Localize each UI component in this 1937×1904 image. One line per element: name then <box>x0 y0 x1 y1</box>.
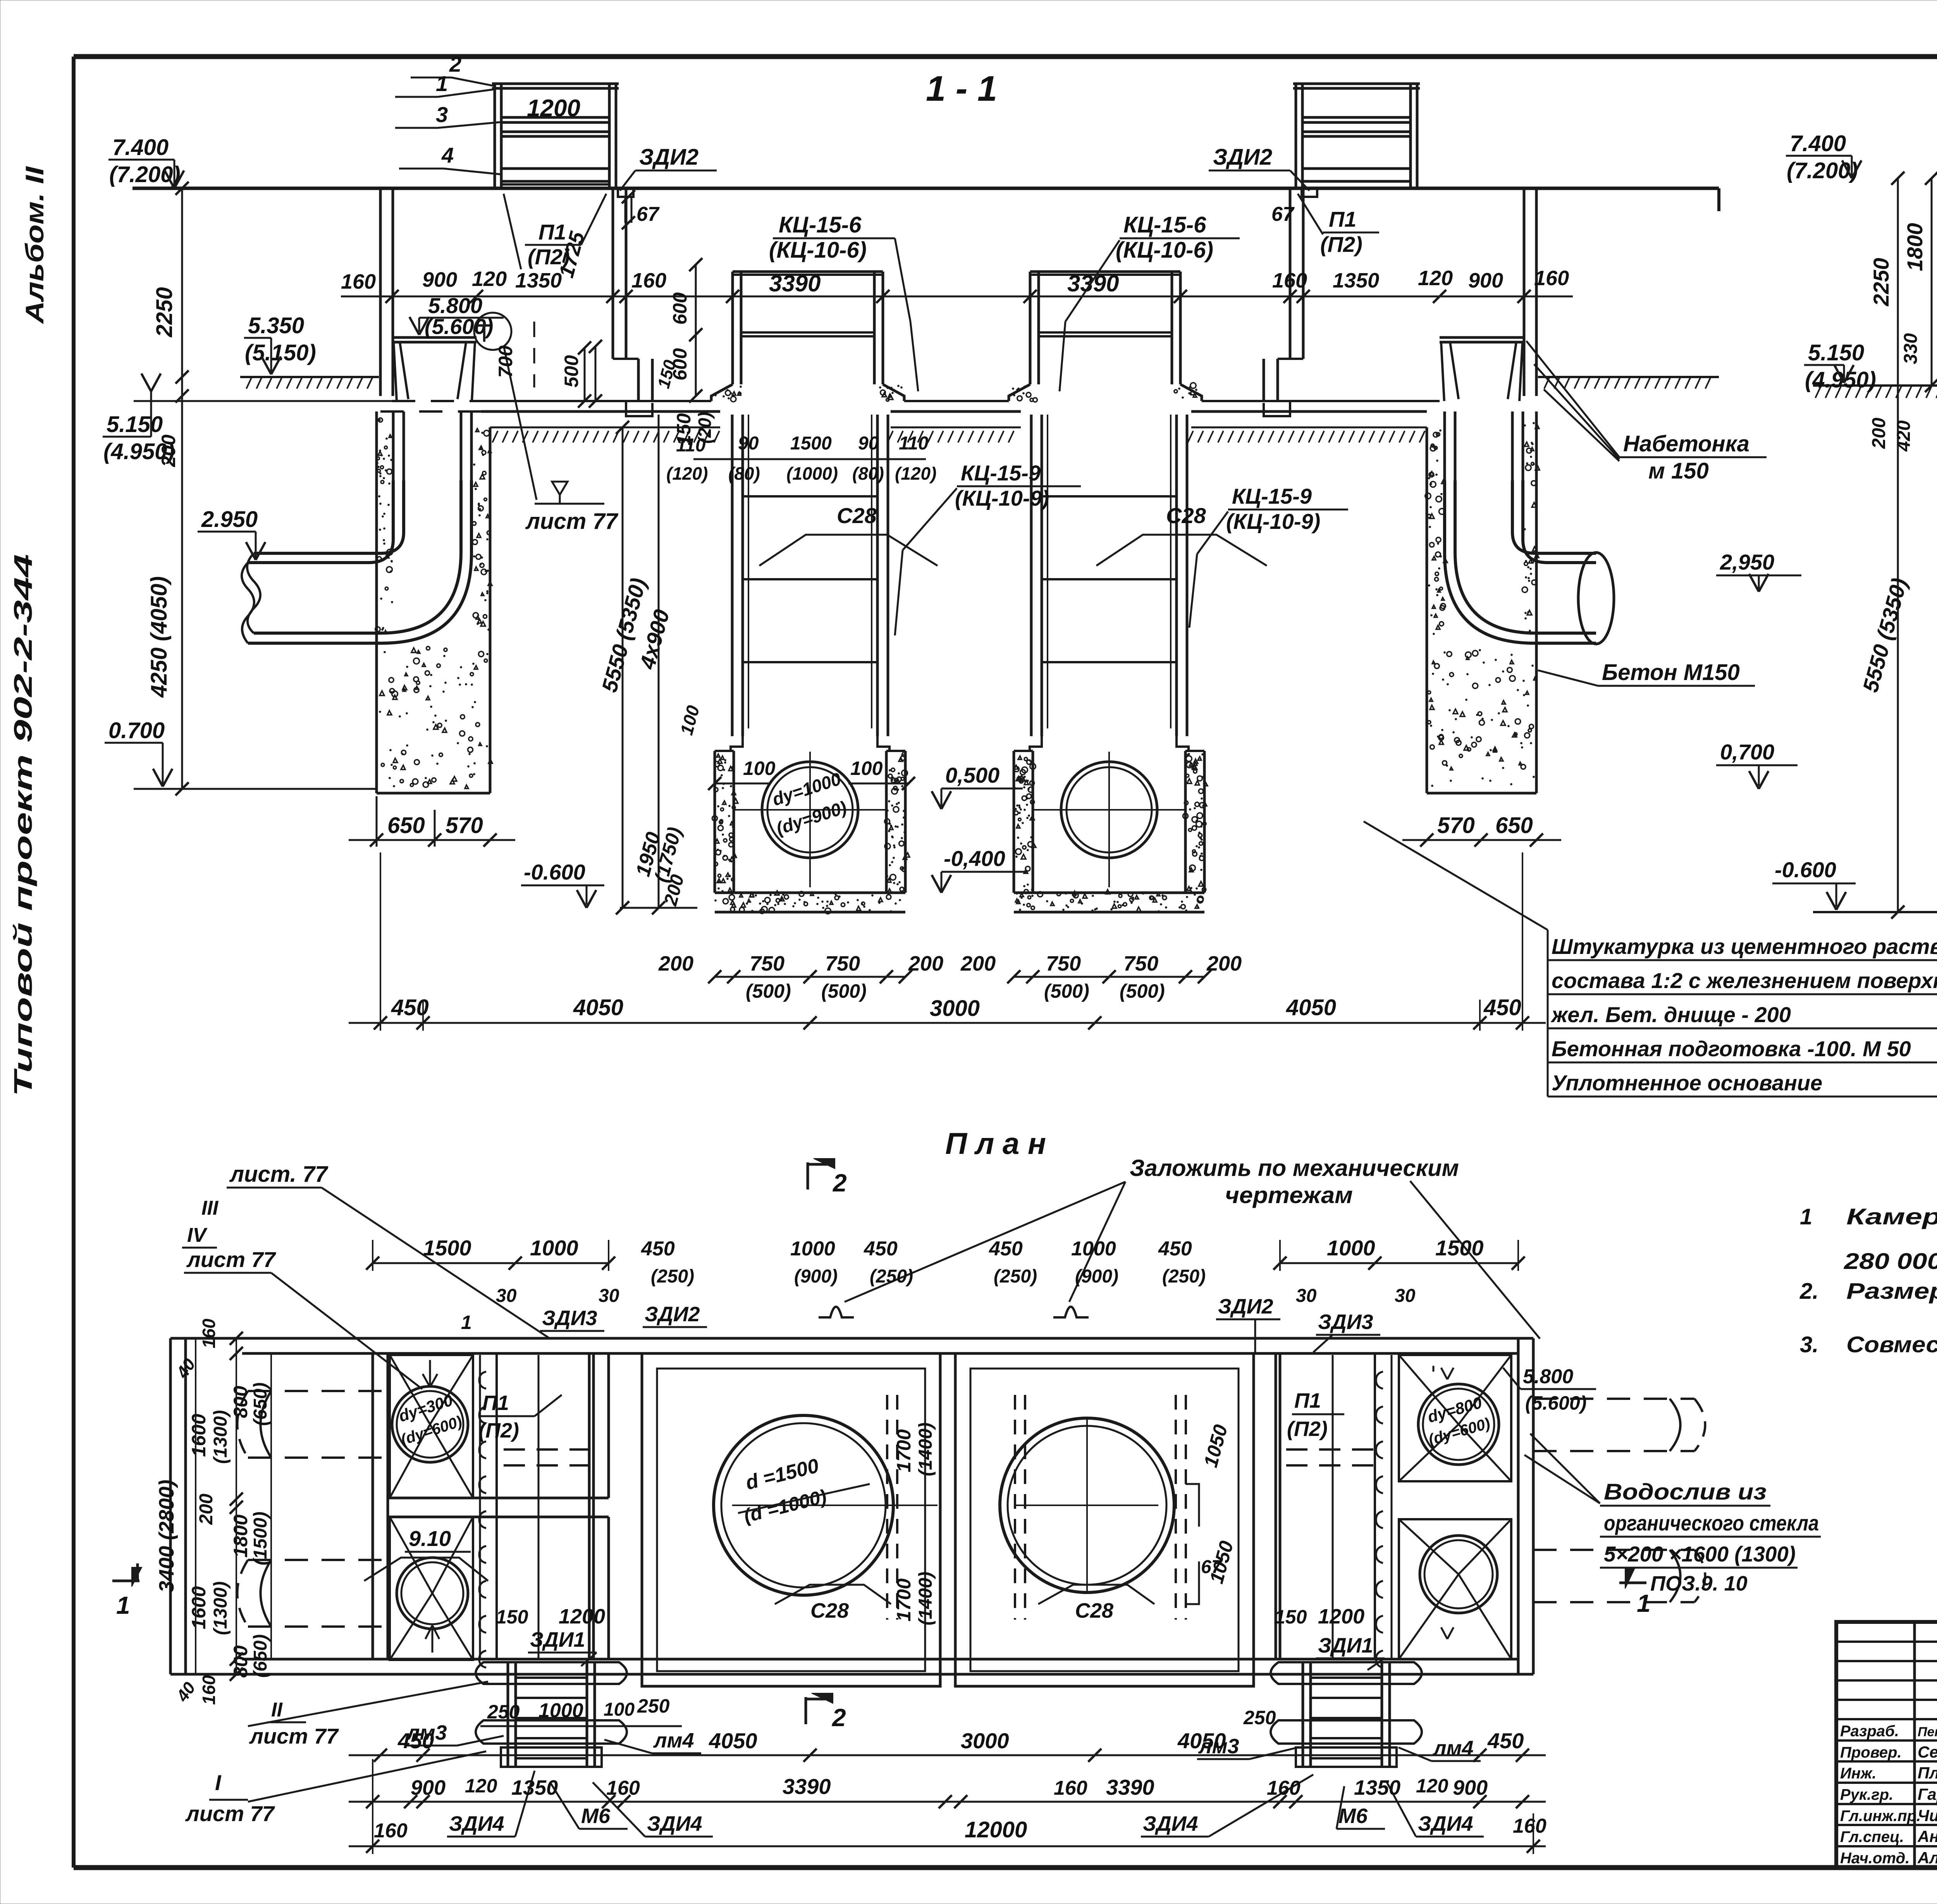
svg-text:5.800: 5.800 <box>1523 1365 1573 1388</box>
svg-text:Штукатурка из цементного раств: Штукатурка из цементного раствора <box>1552 934 1937 959</box>
left vertical dimension line with 2250 and 4250 <box>146 182 189 795</box>
svg-text:1350: 1350 <box>1333 269 1379 292</box>
svg-text:90: 90 <box>738 433 759 454</box>
svg-text:(650): (650) <box>250 1382 271 1426</box>
detail leader to list 77 left <box>504 346 619 534</box>
svg-text:Разраб.: Разраб. <box>1840 1723 1899 1740</box>
svg-text:С28: С28 <box>837 503 877 528</box>
svg-text:ЗДИ4: ЗДИ4 <box>647 1812 702 1835</box>
label P1 P2 plan left <box>478 1391 562 1442</box>
label Nabetonka m150 with leaders <box>1526 341 1767 484</box>
svg-text:4050: 4050 <box>573 995 623 1020</box>
svg-text:Совместно с данным см. п.: Совместно с данным см. п. КЖ-77 <box>1846 1332 1937 1357</box>
svg-text:Уплотненное основание: Уплотненное основание <box>1552 1071 1822 1095</box>
svg-text:лм4: лм4 <box>1432 1737 1474 1760</box>
plan right opening square lower <box>1399 1519 1511 1659</box>
dim 570 650 under right pier <box>1402 813 1561 847</box>
svg-text:Размеры и обозначения в ско: Размеры и обозначения в скобках для каме… <box>1846 1279 1937 1304</box>
svg-text:120: 120 <box>465 1775 497 1797</box>
svg-text:250: 250 <box>1243 1707 1276 1728</box>
label P1 P2 right <box>1298 194 1379 257</box>
svg-text:160: 160 <box>606 1777 640 1799</box>
svg-text:(250): (250) <box>994 1266 1037 1287</box>
svg-text:(1000): (1000) <box>786 463 838 484</box>
plan right chamber room P1 <box>1276 1353 1375 1659</box>
svg-text:1350: 1350 <box>1354 1776 1400 1799</box>
svg-text:ЗДИ2: ЗДИ2 <box>1218 1295 1273 1318</box>
plan right anchor strip <box>1375 1355 1392 1668</box>
svg-text:1350: 1350 <box>511 1776 558 1799</box>
dim 650 570 under left pier <box>349 796 846 847</box>
external ground line right with hatching <box>1538 376 1719 378</box>
plan top dims right row 1000 1500 <box>1273 1236 1525 1306</box>
svg-text:160: 160 <box>341 270 376 293</box>
plan stair left labels <box>405 1721 713 1837</box>
svg-text:160: 160 <box>1054 1777 1087 1799</box>
plan label ZDI1 right <box>1201 1557 1385 1670</box>
svg-text:КЦ-15-6: КЦ-15-6 <box>1123 212 1206 238</box>
svg-text:1500: 1500 <box>1435 1236 1484 1260</box>
plan big circle right <box>1000 1418 1174 1592</box>
lower shaft left below floor with pit and pipe dy1000 <box>731 415 734 736</box>
svg-text:750: 750 <box>750 952 784 975</box>
svg-text:(1500): (1500) <box>250 1511 271 1565</box>
svg-text:450: 450 <box>1158 1238 1192 1260</box>
svg-text:150: 150 <box>1275 1606 1307 1628</box>
plan dashed ladder strips C28 <box>887 1395 1186 1620</box>
svg-text:2.: 2. <box>1799 1279 1818 1304</box>
svg-text:12000: 12000 <box>965 1817 1027 1842</box>
guard rail left of section 1-1 <box>492 84 619 188</box>
svg-text:650: 650 <box>1495 813 1533 838</box>
svg-text:160: 160 <box>1534 267 1569 290</box>
svg-text:30: 30 <box>496 1286 517 1306</box>
signature labels <box>1840 1723 1937 1867</box>
svg-text:чертежам: чертежам <box>1225 1182 1353 1208</box>
svg-text:М6: М6 <box>1338 1804 1368 1828</box>
svg-text:2: 2 <box>449 52 461 76</box>
svg-text:1200: 1200 <box>1318 1605 1364 1628</box>
svg-text:лист 77: лист 77 <box>525 509 619 534</box>
lower shaft right below floor with pit and pipe <box>1030 415 1033 736</box>
plan labels ZDI2 ZDI3 right <box>1216 1295 1380 1352</box>
right elbow pipe down and to the right <box>1445 480 1614 644</box>
svg-text:100: 100 <box>850 757 883 779</box>
plan label ZDI1 left <box>496 1605 605 1666</box>
concrete encasement left pier <box>377 411 490 793</box>
anchor detail under deck with dim 67 <box>618 188 660 229</box>
svg-text:160: 160 <box>374 1820 408 1842</box>
plan stair assembly right <box>1271 1662 1422 1684</box>
svg-text:570: 570 <box>1437 813 1475 838</box>
svg-text:ЗДИ2: ЗДИ2 <box>639 145 698 170</box>
svg-text:жел. Бет. днище - 200: жел. Бет. днище - 200 <box>1550 1002 1791 1027</box>
plan left chamber block walls <box>373 1353 609 1659</box>
plan labels ZDI3 ZDI2 left <box>540 1303 707 1331</box>
svg-text:160: 160 <box>199 1319 219 1348</box>
svg-text:450: 450 <box>989 1238 1023 1260</box>
svg-text:С28: С28 <box>1075 1599 1113 1622</box>
svg-text:Альбом. II: Альбом. II <box>20 166 49 324</box>
svg-text:-0,400: -0,400 <box>944 846 1005 871</box>
thin level line 0.700 left <box>134 788 378 790</box>
left outer wall of chamber <box>379 188 382 396</box>
svg-text:2: 2 <box>833 1169 847 1197</box>
plan C28 labels with chevrons <box>775 1585 1154 1622</box>
svg-text:1600: 1600 <box>188 1586 210 1629</box>
svg-text:90: 90 <box>858 433 879 454</box>
svg-text:200: 200 <box>1869 418 1889 449</box>
svg-text:420: 420 <box>1894 420 1914 452</box>
svg-text:1500: 1500 <box>423 1236 471 1260</box>
plan right circle lower <box>1420 1536 1497 1613</box>
plan left pipe circle lower <box>397 1558 468 1629</box>
label KC-15-9 right with leader <box>1189 484 1348 628</box>
P1 chamber left wall right side mirror <box>1264 188 1303 401</box>
svg-text:лм4: лм4 <box>653 1729 694 1752</box>
svg-text:1200: 1200 <box>559 1605 605 1628</box>
level 5.800 5.600 plan right <box>1503 1365 1596 1414</box>
svg-text:лист 77: лист 77 <box>186 1247 277 1272</box>
plan dashed incoming pipes left upper <box>237 1391 390 1458</box>
plan right circle dy800 upper <box>1418 1384 1499 1465</box>
svg-text:30: 30 <box>599 1286 619 1306</box>
svg-text:200: 200 <box>908 952 943 975</box>
leader texts II list 77 and I list 77 bottom left <box>185 1682 488 1826</box>
svg-text:3000: 3000 <box>930 996 980 1021</box>
title block signature grid <box>1836 1622 1937 1868</box>
svg-text:2: 2 <box>832 1704 846 1732</box>
svg-text:1 - 1: 1 - 1 <box>926 69 997 108</box>
svg-text:(500): (500) <box>746 980 791 1002</box>
anchor label ZDI2 left <box>620 145 717 191</box>
svg-text:1000: 1000 <box>1327 1236 1375 1260</box>
svg-text:(80): (80) <box>852 463 884 484</box>
svg-text:1: 1 <box>116 1591 130 1619</box>
svg-text:900: 900 <box>422 268 457 291</box>
svg-text:(КЦ-10-6): (КЦ-10-6) <box>769 238 867 263</box>
svg-text:П1: П1 <box>1329 207 1356 231</box>
dim 100 texts at pit ledge <box>708 757 915 790</box>
svg-text:7.400: 7.400 <box>1790 131 1846 156</box>
leader texts list 77 top left of plan <box>182 1162 550 1389</box>
ground hatch left and right of 2-2 box <box>1813 386 1937 398</box>
svg-text:160: 160 <box>1513 1815 1547 1837</box>
svg-text:110: 110 <box>899 433 929 454</box>
plan bottom dim chain row1 450 4050 3000 4050 450 <box>349 1728 1546 1762</box>
svg-text:4: 4 <box>441 143 454 167</box>
svg-text:II: II <box>271 1699 283 1721</box>
svg-text:160: 160 <box>1267 1777 1301 1799</box>
svg-text:1: 1 <box>1800 1204 1812 1229</box>
right anchor detail with dim 67 <box>1271 188 1317 226</box>
svg-text:(5.600): (5.600) <box>1525 1392 1586 1414</box>
svg-text:7.400: 7.400 <box>112 135 169 160</box>
svg-text:450: 450 <box>1483 995 1521 1020</box>
svg-text:250: 250 <box>637 1695 670 1717</box>
plan stair right labels <box>1141 1707 1484 1837</box>
svg-text:1000: 1000 <box>530 1236 578 1260</box>
svg-text:1700: 1700 <box>893 1579 915 1622</box>
svg-text:Набетонка: Набетонка <box>1623 431 1749 456</box>
svg-text:330: 330 <box>1901 333 1921 364</box>
plan big circle left d1500 <box>714 1415 938 1595</box>
svg-text:450: 450 <box>1487 1728 1524 1753</box>
svg-text:9.10: 9.10 <box>409 1526 451 1551</box>
svg-text:0.700: 0.700 <box>108 718 165 743</box>
svg-text:500: 500 <box>561 355 582 387</box>
svg-text:750: 750 <box>1123 952 1158 975</box>
svg-text:органического стекла: органического стекла <box>1604 1511 1819 1535</box>
svg-text:-0.600: -0.600 <box>524 860 585 884</box>
svg-text:Платунина: Платунина <box>1918 1764 1937 1782</box>
svg-text:4050: 4050 <box>1177 1728 1226 1753</box>
svg-text:П л а н: П л а н <box>945 1126 1046 1160</box>
level mark 2.950 right <box>1716 550 1801 592</box>
svg-text:(20): (20) <box>695 412 715 444</box>
svg-text:Провер.: Провер. <box>1840 1744 1902 1761</box>
svg-text:200: 200 <box>658 952 693 975</box>
svg-text:I: I <box>215 1770 222 1795</box>
detail circle at funnel rim <box>474 313 511 350</box>
svg-text:IV: IV <box>187 1224 208 1246</box>
guard rail right of section 1-1 <box>1293 84 1420 188</box>
svg-text:(80): (80) <box>728 463 760 484</box>
label vodosliv right of plan <box>1524 1434 1821 1595</box>
svg-text:200: 200 <box>1206 952 1242 975</box>
deck top line level 7.400 <box>132 187 1719 190</box>
svg-text:Гарбуз: Гарбуз <box>1918 1785 1937 1803</box>
floor slab of upper gallery <box>134 401 1440 411</box>
plan left pipe circle dy300 dy600 upper <box>392 1386 468 1462</box>
svg-text:200: 200 <box>158 434 179 467</box>
svg-text:0,500: 0,500 <box>945 763 999 787</box>
svg-text:(500): (500) <box>1120 980 1165 1002</box>
svg-text:1: 1 <box>436 71 448 96</box>
label KC-15-6 left with leader <box>769 212 918 391</box>
svg-text:150: 150 <box>673 413 695 446</box>
label P1 P2 plan right <box>1287 1389 1344 1441</box>
svg-text:1700: 1700 <box>893 1429 915 1472</box>
horizontal dim line 160 900 120 1350 row left <box>341 229 1573 303</box>
svg-text:(250): (250) <box>870 1266 913 1287</box>
svg-text:1800: 1800 <box>1903 223 1927 271</box>
svg-text:состава 1:2 с железнением пове: состава 1:2 с железнением поверхности -2… <box>1552 968 1937 993</box>
plan left vertical dim chains <box>155 1319 271 1706</box>
svg-text:700: 700 <box>495 345 516 378</box>
svg-text:1600: 1600 <box>188 1414 210 1457</box>
plan top dims central rows 450 1000 450 <box>620 1238 1259 1287</box>
svg-text:150: 150 <box>496 1606 528 1628</box>
level -0.600 of 2-2 <box>1772 857 1937 912</box>
svg-text:лист 77: лист 77 <box>249 1724 339 1748</box>
svg-text:450: 450 <box>864 1238 898 1260</box>
title block outer <box>1836 1622 1937 1868</box>
level -0.600 left of section 1-1 <box>521 860 697 914</box>
anchor label ZDI2 right <box>1209 145 1309 191</box>
plan rotated dims 1050 1050 inside central right <box>1185 1422 1237 1604</box>
plan central right big square <box>955 1353 1254 1686</box>
svg-text:1500: 1500 <box>790 433 832 454</box>
plan right opening square upper <box>1399 1355 1511 1481</box>
svg-text:67: 67 <box>1201 1557 1223 1577</box>
svg-text:лист 77: лист 77 <box>185 1801 275 1826</box>
svg-text:(4.950): (4.950) <box>1805 367 1876 393</box>
label 9.10 with chevron <box>364 1526 488 1581</box>
svg-text:650: 650 <box>387 813 425 838</box>
svg-text:(120): (120) <box>666 463 708 484</box>
svg-text:30: 30 <box>1296 1286 1317 1306</box>
svg-text:(1400): (1400) <box>915 1422 936 1476</box>
bottom dim chain 200 750 750 200 left pit <box>658 952 943 1002</box>
svg-text:(250): (250) <box>1162 1266 1206 1287</box>
svg-text:(1300): (1300) <box>210 1410 231 1464</box>
level mark 5.800 (5.600) at funnel <box>409 293 504 339</box>
svg-text:3390: 3390 <box>1067 270 1119 296</box>
plan section marks 2-2 <box>806 1159 847 1732</box>
dim rows 110 90 1500 90 110 over shafts <box>666 433 936 484</box>
plan right outgoing dashed pipes <box>1533 1399 1705 1602</box>
plan bottom dim chain row3 160 12000 160 <box>349 1759 1547 1854</box>
svg-text:Заложить по механическим: Заложить по механическим <box>1130 1155 1459 1181</box>
svg-text:3000: 3000 <box>961 1728 1009 1753</box>
svg-text:КЦ-15-9: КЦ-15-9 <box>961 461 1041 485</box>
svg-text:Типовой проект 902-2-344: Типовой проект 902-2-344 <box>9 554 37 1097</box>
svg-text:(650): (650) <box>250 1634 271 1678</box>
svg-text:(500): (500) <box>821 980 867 1002</box>
svg-text:лист. 77: лист. 77 <box>229 1162 329 1187</box>
svg-text:ПОЗ.9. 10: ПОЗ.9. 10 <box>1650 1572 1748 1595</box>
svg-text:1200: 1200 <box>527 95 580 122</box>
svg-text:0,700: 0,700 <box>1720 740 1774 764</box>
svg-text:1: 1 <box>1637 1589 1651 1617</box>
svg-text:3390: 3390 <box>783 1774 831 1799</box>
svg-text:750: 750 <box>825 952 860 975</box>
svg-text:2.950: 2.950 <box>201 507 258 532</box>
svg-text:4050: 4050 <box>1286 995 1336 1020</box>
rail part leaders 2 1 3 4 <box>395 52 501 174</box>
pipe diameter text dy=1000 (dy=900) <box>770 768 849 838</box>
svg-text:(КЦ-10-9): (КЦ-10-9) <box>955 486 1049 510</box>
svg-text:Инж.: Инж. <box>1840 1765 1877 1782</box>
svg-text:ЗДИ3: ЗДИ3 <box>542 1307 597 1330</box>
svg-text:ЗДИ1: ЗДИ1 <box>1318 1634 1373 1657</box>
svg-text:(900): (900) <box>1075 1266 1118 1287</box>
svg-text:Семенова: Семенова <box>1918 1743 1937 1761</box>
svg-text:280 000 м³/сут., камера N4 д: 280 000 м³/сут., камера N4 для аэротенка… <box>1844 1249 1937 1274</box>
svg-text:120: 120 <box>472 267 507 291</box>
svg-text:600: 600 <box>669 292 691 325</box>
svg-text:(5.150): (5.150) <box>245 340 316 365</box>
svg-text:П1: П1 <box>482 1391 509 1415</box>
plan section marks 1-1 <box>112 1563 1651 1619</box>
svg-text:III: III <box>201 1197 219 1219</box>
svg-text:(1300): (1300) <box>210 1581 231 1635</box>
svg-text:Камера N3 для аэротенка пр: Камера N3 для аэротенка производительнос… <box>1846 1204 1937 1229</box>
svg-text:5.150: 5.150 <box>1808 340 1864 365</box>
label KC-15-9 left with leader <box>895 461 1081 635</box>
svg-text:(П2): (П2) <box>478 1419 519 1442</box>
plan stair assembly left LM3 LM4 <box>476 1662 627 1684</box>
svg-text:(П2): (П2) <box>1287 1417 1328 1441</box>
svg-text:1000: 1000 <box>538 1699 583 1722</box>
P1 chamber right wall <box>613 188 652 401</box>
plan bottom dim chain row2 900 120 1350 160 3390 <box>349 1774 1546 1808</box>
svg-text:3: 3 <box>436 102 448 127</box>
svg-text:900: 900 <box>411 1776 446 1799</box>
plan left opening square upper with diagonals <box>390 1355 473 1498</box>
svg-text:(КЦ-10-6): (КЦ-10-6) <box>1116 238 1213 263</box>
svg-text:(250): (250) <box>651 1266 694 1287</box>
label KC-15-6 right with leader <box>1060 212 1240 391</box>
right shaft below floor <box>1445 411 1523 480</box>
svg-text:(П2): (П2) <box>1320 232 1362 257</box>
level mark 0.500 middle <box>932 763 1023 809</box>
svg-text:1000: 1000 <box>790 1238 835 1260</box>
left shaft below floor <box>393 411 471 480</box>
dims 150 20 near floor left <box>673 412 715 446</box>
bottom main chain 450 4050 3000 4050 450 <box>349 852 1546 1031</box>
svg-text:3.: 3. <box>1800 1332 1818 1357</box>
precast shaft ring KC-15-6 upper right assembly <box>1029 272 1032 384</box>
concrete encasement right pier <box>1427 411 1536 793</box>
svg-text:67: 67 <box>636 203 660 226</box>
vertical dims 2250 1800 330 420 200 left of 2-2 <box>1869 172 1937 919</box>
plan outer band walls <box>170 1338 1533 1674</box>
svg-text:160: 160 <box>1272 269 1307 292</box>
label Beton M150 with leader <box>1538 660 1755 686</box>
svg-text:450: 450 <box>397 1728 434 1753</box>
bottom dim chain 200 750 750 200 right pit <box>960 952 1242 1002</box>
svg-text:ЗДИ4: ЗДИ4 <box>449 1812 504 1835</box>
svg-text:Рук.гр.: Рук.гр. <box>1840 1786 1893 1803</box>
ladder label C28 right with chevron <box>1096 503 1267 566</box>
svg-text:П1: П1 <box>538 220 566 244</box>
svg-text:30: 30 <box>1395 1286 1416 1306</box>
plan room P1 left with dashed inner lines <box>497 1353 593 1659</box>
right outer wall of chamber <box>1523 188 1526 396</box>
svg-text:4050: 4050 <box>709 1728 757 1753</box>
ladder label C28 left with chevron <box>759 503 938 566</box>
svg-text:Петропавловская: Петропавловская <box>1918 1725 1937 1739</box>
svg-text:5.150: 5.150 <box>107 412 163 437</box>
svg-text:900: 900 <box>1453 1776 1488 1799</box>
svg-text:П1: П1 <box>1294 1389 1321 1412</box>
dim texts 600 600 150 stack near left assembly <box>495 258 702 408</box>
svg-text:(1400): (1400) <box>915 1572 936 1625</box>
svg-text:250: 250 <box>487 1701 520 1723</box>
svg-text:100: 100 <box>743 757 776 779</box>
svg-text:Чирков: Чирков <box>1918 1806 1937 1825</box>
plan top dims left row <box>366 1236 619 1333</box>
floor step notch near P1 walls <box>626 401 1290 416</box>
svg-text:3400 (2800): 3400 (2800) <box>155 1480 178 1592</box>
svg-text:100: 100 <box>604 1699 635 1720</box>
plan label text zalozhit po mekhanicheskim <box>845 1155 1540 1339</box>
svg-text:С28: С28 <box>1166 503 1206 528</box>
plan anchor strip with hooks left <box>479 1355 497 1668</box>
vertical dims right of left shaft 5550 4x900 1950 200 <box>597 415 704 914</box>
svg-text:3390: 3390 <box>1106 1775 1154 1799</box>
precast shaft ring KC-15-6 upper left assembly <box>731 272 734 384</box>
svg-text:Водослив из: Водослив из <box>1604 1479 1767 1505</box>
svg-text:800: 800 <box>230 1386 251 1418</box>
svg-text:ЗДИ3: ЗДИ3 <box>1318 1310 1373 1334</box>
horizontal dim line mirrored right 160 1350 120 900 160 <box>1272 267 1569 292</box>
svg-text:Андрианов: Андрианов <box>1917 1827 1937 1845</box>
note 3 <box>1800 1332 1937 1357</box>
plan stair left dims 250 1000 100 250 <box>480 1695 682 1726</box>
